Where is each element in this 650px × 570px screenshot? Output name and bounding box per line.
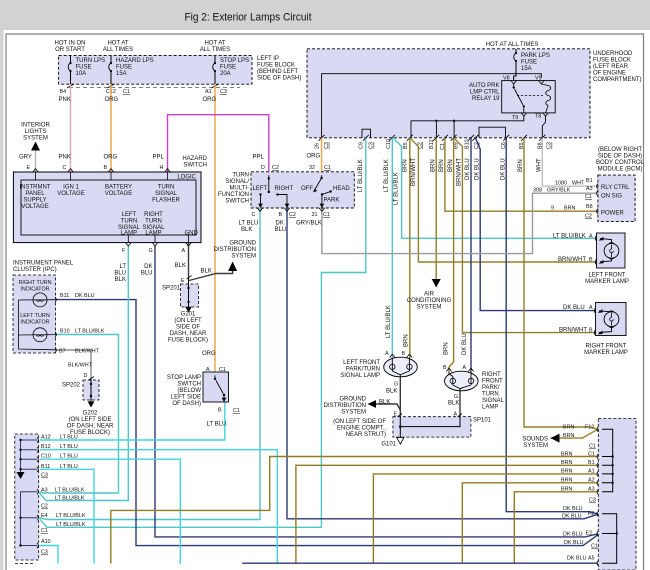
fuse PARK LPS FUSE 15A (514, 49, 550, 72)
wire LT BLU left connector C10 down to bottom (40, 459, 180, 564)
svg-text:BRN/WHT: BRN/WHT (558, 257, 586, 263)
svg-text:GRY/BLK: GRY/BLK (547, 188, 571, 194)
label BRN A2 row (561, 478, 595, 484)
svg-text:SWITCH: SWITCH (225, 199, 249, 205)
svg-text:FUNCTION: FUNCTION (218, 192, 249, 198)
label INTERIOR LIGHTS SYSTEM (21, 123, 50, 142)
wire LT BLU stop lamp switch pin B to left connector A12 (40, 402, 225, 440)
label SOUNDS SYSTEM (522, 436, 548, 449)
wire DK BLU underhood pin C6 to right connector pin F2 (506, 138, 598, 514)
svg-text:BRN: BRN (563, 433, 574, 439)
relay AUTO PRK LMP CTRL RELAY 19 box (469, 81, 555, 113)
svg-text:RIGHT: RIGHT (144, 212, 163, 218)
multifunction switch headlamp selector symbol (301, 175, 350, 208)
svg-text:C3: C3 (547, 142, 553, 149)
svg-text:308: 308 (533, 188, 542, 194)
svg-text:DK: DK (276, 221, 284, 227)
wire LT BLU left connector B12 down to bottom (40, 450, 277, 563)
svg-text:LT BLU/BLK: LT BLU/BLK (553, 233, 586, 239)
relay pin T9 (512, 113, 527, 121)
svg-text:H: H (160, 165, 164, 171)
internal n-loop for connector C2/C6 (479, 127, 506, 138)
svg-text:GND: GND (185, 231, 199, 237)
svg-text:DISTRIBUTION: DISTRIBUTION (324, 403, 366, 409)
svg-text:LEFT IP: LEFT IP (257, 56, 279, 62)
wire BLK/WHT IPC pin B7 to splice SP202 (57, 350, 92, 379)
relay pin V9 (535, 76, 544, 85)
label 1080 WHT B1 (555, 178, 593, 187)
svg-text:C2: C2 (41, 504, 48, 510)
svg-text:LEFT FRONT: LEFT FRONT (343, 360, 380, 366)
label (BELOW RIGHT SIDE OF DASH) BODY CONTROL MODULE (BCM) (596, 147, 645, 173)
svg-text:TURN LPS: TURN LPS (76, 58, 106, 64)
svg-text:C10: C10 (386, 139, 392, 149)
svg-text:LAMP: LAMP (121, 231, 137, 237)
wire BRN bottom feed to right connector pin B1 (296, 465, 598, 563)
label A3 LT BLU/BLK (41, 488, 85, 494)
wire: internal bus from T9 across with stubs down to pins B5, B12, B9 (411, 116, 524, 138)
multifunction switch pin C (252, 208, 263, 218)
multifunction switch turn selector symbol (253, 175, 294, 208)
wire GRY/BLK multifunction switch pin 31 to BCM pin A3 (322, 193, 598, 253)
label TURN SIGNAL FLASHER (152, 185, 180, 204)
label LEFT TURN SIGNAL LAMP (118, 212, 141, 237)
left park/turn pin G and BLK label (386, 382, 398, 395)
svg-text:BLK: BLK (448, 401, 459, 407)
svg-text:B10: B10 (60, 329, 70, 335)
svg-text:LT BLU: LT BLU (60, 435, 78, 441)
svg-text:CLUSTER (IPC): CLUSTER (IPC) (13, 267, 57, 273)
svg-text:C1: C1 (233, 408, 240, 414)
svg-text:DK BLU: DK BLU (567, 555, 587, 561)
wire LT BLU/BLK underhood pin C10 to left front park/turn lamp pin A (391, 138, 393, 358)
svg-text:C3: C3 (220, 89, 227, 95)
svg-text:ENGINE COMPT.,: ENGINE COMPT., (337, 426, 386, 432)
svg-text:BRN/WHT: BRN/WHT (559, 327, 587, 333)
logic inner pin stubs top (36, 172, 189, 243)
svg-text:C1: C1 (589, 444, 596, 450)
svg-text:LEFT SIDE: LEFT SIDE (171, 395, 201, 401)
svg-text:C: C (63, 165, 67, 171)
svg-text:E: E (27, 165, 31, 171)
svg-text:BLU: BLU (141, 271, 153, 277)
svg-text:A2: A2 (588, 478, 595, 484)
svg-text:AIR: AIR (424, 292, 435, 298)
label G202 (ON LEFT SIDE OF DASH, NEAR FUSE BLOCK) (67, 411, 114, 437)
svg-text:V8: V8 (503, 76, 510, 82)
wire DK BLU logic pin G to right connector pin E2 (155, 246, 598, 537)
svg-text:FUSE BLOCK: FUSE BLOCK (593, 58, 631, 64)
svg-text:(BEHIND LEFT: (BEHIND LEFT (257, 69, 298, 75)
svg-text:LEFT FRONT: LEFT FRONT (589, 273, 626, 279)
svg-text:B: B (104, 165, 108, 171)
label C10 LT BLU (41, 454, 78, 460)
wire BRN underhood pin C1 to BCM pin B8 (445, 138, 598, 211)
wire LT BLU left connector B11 down to bottom (40, 469, 94, 563)
splice SP201 box (162, 276, 199, 308)
wire BRN bottom feed to right connector pin A2 (462, 483, 598, 564)
svg-text:TURN: TURN (158, 185, 175, 191)
wire ORG stop fuse to stop lamp switch pin A (214, 84, 216, 372)
svg-text:B1: B1 (586, 178, 593, 184)
wire DK BLU multifunction switch pin B to right connector pin F2 (287, 208, 598, 519)
svg-text:SYSTEM: SYSTEM (341, 410, 366, 416)
multifunction switch pin B / C2 (279, 208, 296, 218)
multifunction switch pin 31 / C1 (312, 208, 330, 218)
svg-text:WHT: WHT (572, 181, 585, 187)
svg-text:INSTRUMENT PANEL: INSTRUMENT PANEL (13, 261, 74, 267)
svg-text:LT BLU: LT BLU (60, 444, 78, 450)
svg-text:OF DASH): OF DASH) (172, 401, 201, 407)
pin label C9/C3 (359, 142, 375, 149)
svg-text:FUSE: FUSE (116, 65, 132, 71)
wire BRN bottom feed to right connector pin C1 (111, 457, 598, 564)
svg-text:A: A (463, 365, 467, 371)
label RIGHT TURN SIGNAL LAMP (142, 212, 165, 237)
svg-text:DK BLU: DK BLU (462, 333, 468, 355)
svg-text:OF ENGINE: OF ENGINE (593, 71, 626, 77)
fuse HAZARD LPS FUSE 15A (109, 56, 154, 84)
svg-text:FUSE: FUSE (220, 65, 236, 71)
pin B logic box (104, 165, 114, 172)
stop lamp switch pin A / C1 (206, 367, 226, 375)
svg-text:E2: E2 (586, 531, 593, 537)
BCM box (598, 175, 635, 222)
svg-text:TURN: TURN (232, 173, 249, 179)
label LT BLU BLK (pin F wire) (114, 264, 126, 283)
svg-text:LT BLU/BLK: LT BLU/BLK (394, 172, 400, 205)
wire DK BLU row to right connector pin A5 (242, 562, 598, 564)
arrow left to sounds system (551, 434, 560, 443)
svg-text:PNK: PNK (59, 155, 71, 161)
label DK BLU (switch pin B wire) (275, 221, 287, 234)
label BRN B1 row (561, 460, 595, 466)
logic module outer box (13, 172, 201, 243)
svg-text:B8: B8 (586, 204, 593, 210)
svg-text:LT: LT (119, 264, 126, 270)
wire GRY interior lights to logic pin E (35, 151, 37, 173)
svg-text:GRY/BLK: GRY/BLK (296, 221, 322, 227)
svg-text:AUTO PRK: AUTO PRK (469, 83, 500, 89)
wire PNK fuse B4 to logic pin C (70, 84, 72, 172)
label E4 LT BLU/BLK (41, 513, 86, 519)
svg-text:A1: A1 (205, 89, 212, 95)
svg-text:LT BLU: LT BLU (207, 422, 227, 428)
label B7 BLK/WHT (59, 349, 100, 355)
svg-text:NEAR STRUT): NEAR STRUT) (346, 432, 386, 438)
left IP fuse block box (59, 55, 252, 84)
svg-text:A: A (589, 233, 593, 239)
svg-text:A: A (182, 248, 186, 254)
left connector pin A3 (37, 489, 38, 494)
label GROUND DISTRIBUTION SYSTEM (center) (214, 241, 257, 260)
svg-text:RLY CTRL: RLY CTRL (601, 185, 630, 191)
svg-text:SIGNAL LAMP: SIGNAL LAMP (340, 373, 380, 379)
svg-text:LEFT: LEFT (122, 212, 137, 218)
svg-text:HEAD: HEAD (333, 186, 350, 192)
svg-text:(LEFT REAR: (LEFT REAR (593, 64, 629, 70)
label IGN 1 VOLTAGE (57, 185, 84, 198)
svg-text:D: D (84, 373, 88, 379)
right park/turn pin G and BLK label (448, 394, 459, 407)
left connector internal bus (lower) (19, 492, 37, 547)
svg-text:HOT AT: HOT AT (107, 41, 128, 47)
svg-text:B12: B12 (41, 444, 51, 450)
svg-text:SIGNAL/: SIGNAL/ (225, 179, 249, 185)
wire BRN underhood pin B5 to right connector pin F12 (524, 138, 598, 429)
label INSTRMNT PANEL SUPPLY VOLTAGE (20, 185, 51, 211)
svg-text:RIGHT FRONT: RIGHT FRONT (586, 344, 627, 350)
label LEFT TURN INDICATOR (20, 313, 50, 326)
pin label B8/C3 (537, 142, 552, 149)
label LT BLU/BLK A (left front marker feed) (553, 233, 593, 239)
left connector internal bus (upper) (17, 439, 38, 479)
BCM pin B8 (597, 209, 598, 214)
svg-text:SIDE OF DASH): SIDE OF DASH) (257, 76, 301, 82)
svg-text:F12: F12 (585, 425, 594, 431)
svg-text:LT BLU/BLK: LT BLU/BLK (56, 522, 86, 528)
svg-text:A: A (589, 305, 593, 311)
wire PPL logic pin H to multifunction switch pin D (168, 115, 269, 172)
svg-text:STOP LAMP: STOP LAMP (167, 375, 201, 381)
wire LT BLU/BLK multifunction switch pin C to left connector E4 (40, 208, 261, 520)
label LT BLU BLK (switch pin C wire) (239, 221, 259, 234)
svg-text:G: G (149, 248, 153, 254)
svg-text:VOLTAGE: VOLTAGE (21, 204, 48, 210)
pin B4 (turn lps fuse output) (60, 84, 75, 95)
left front marker lamp (595, 233, 625, 268)
left connector pin A12 (37, 437, 38, 442)
svg-text:B: B (218, 408, 222, 414)
svg-text:DK BLU: DK BLU (75, 293, 95, 299)
svg-text:1080: 1080 (555, 181, 567, 187)
wire LT BLU/BLK IPC pin B10 to left connector A3 (40, 335, 119, 494)
pin E logic box (27, 165, 39, 172)
svg-text:BLK/WHT: BLK/WHT (75, 349, 100, 355)
svg-text:C1: C1 (123, 89, 130, 95)
label BRN A1 row (561, 469, 595, 475)
svg-text:(ON LEFT SIDE OF: (ON LEFT SIDE OF (333, 419, 386, 425)
svg-text:LT BLU: LT BLU (60, 464, 78, 470)
relay switch contact blade (513, 84, 526, 113)
svg-text:15A: 15A (116, 71, 127, 77)
relay pin T8 (535, 113, 548, 120)
label BRN/WHT B (left front marker) (558, 257, 593, 263)
svg-text:DK BLU: DK BLU (563, 305, 585, 311)
svg-text:COMPARTMENT): COMPARTMENT) (593, 77, 641, 83)
svg-text:DK: DK (144, 264, 152, 270)
rotated wire color labels below underhood block (358, 158, 543, 205)
left front park/turn signal lamp (384, 351, 418, 377)
svg-text:INDICATOR: INDICATOR (20, 320, 49, 326)
svg-text:SIGNAL: SIGNAL (155, 191, 178, 197)
svg-text:SUPPLY: SUPPLY (23, 198, 46, 204)
label B10 LT BLU/BLK (60, 329, 105, 335)
svg-text:B: B (589, 257, 593, 263)
svg-text:LT BLU/BLK: LT BLU/BLK (75, 329, 105, 335)
svg-text:FRONT: FRONT (482, 379, 503, 385)
svg-text:32: 32 (309, 165, 315, 171)
relay pin V8 (503, 76, 516, 85)
svg-text:G201: G201 (181, 312, 196, 318)
label TURN SIGNAL/ MULTI-FUNCTION SWITCH (218, 173, 249, 205)
svg-text:ORG: ORG (307, 154, 321, 160)
svg-text:C1: C1 (41, 528, 48, 534)
ground G101 arrow (397, 437, 404, 444)
label (ON LEFT SIDE OF ENGINE COMPT., NEAR STRUT) (333, 419, 386, 438)
label: LEFT IP FUSE BLOCK (BEHIND LEFT SIDE OF DASH) (257, 56, 301, 82)
svg-text:C2: C2 (585, 214, 592, 220)
svg-text:HOT AT ALL TIMES: HOT AT ALL TIMES (486, 42, 539, 48)
svg-text:LT BLU/BLK: LT BLU/BLK (384, 159, 390, 192)
svg-text:PARK LPS: PARK LPS (521, 53, 550, 59)
svg-text:SYSTEM: SYSTEM (523, 443, 548, 449)
fuse TURN LPS FUSE 10A (68, 56, 105, 84)
underhood block pin slashes along bottom edge (319, 135, 546, 141)
svg-text:BRN: BRN (444, 342, 450, 355)
right bottom connector box (598, 419, 636, 570)
svg-text:(BELOW: (BELOW (177, 388, 201, 394)
pin A logic box bottom (182, 243, 192, 254)
svg-text:HAZARD: HAZARD (182, 156, 207, 162)
wire LT BLU left connector A10 down to bottom (40, 546, 58, 564)
svg-text:LMP CTRL: LMP CTRL (470, 90, 500, 96)
svg-text:TURN: TURN (121, 219, 138, 225)
IPC pin B10 (55, 332, 56, 337)
wire DK BLU underhood pin B10 to right front park/turn lamp pin A (470, 138, 472, 372)
left bottom connector box (15, 434, 39, 560)
svg-text:20A: 20A (220, 71, 231, 77)
svg-text:LAMP: LAMP (145, 231, 161, 237)
svg-text:B11: B11 (60, 293, 69, 299)
svg-text:LAMP: LAMP (482, 405, 498, 411)
svg-text:OR START: OR START (55, 47, 85, 53)
svg-text:PARK: PARK (324, 198, 340, 204)
svg-text:BLU: BLU (275, 227, 287, 233)
svg-text:MARKER LAMP: MARKER LAMP (584, 350, 628, 356)
svg-text:ORG: ORG (104, 155, 118, 161)
svg-text:FUSE: FUSE (521, 60, 537, 66)
svg-text:VOLTAGE: VOLTAGE (105, 191, 132, 197)
arrow left to ground distribution system (lower) (368, 400, 377, 408)
svg-text:SP202: SP202 (62, 383, 81, 389)
wire ORG hazard fuse to logic pin B (110, 84, 112, 172)
right front marker lamp (594, 303, 626, 336)
left gray margin strip (0, 30, 4, 570)
label 9 BRN B8 (551, 204, 593, 212)
svg-text:C3: C3 (41, 550, 48, 556)
svg-text:(ON LEFT: (ON LEFT (174, 318, 202, 324)
splice SP101 box (393, 412, 492, 438)
ground G201 arrow (185, 307, 192, 313)
svg-text:LT BLU: LT BLU (239, 221, 259, 227)
pin C logic box (63, 165, 74, 172)
svg-text:STOP LPS: STOP LPS (220, 58, 249, 64)
left connector pin C10 (37, 457, 38, 462)
left connector pin E4 (37, 515, 38, 520)
svg-text:BLK/WHT: BLK/WHT (68, 363, 93, 369)
wire BLK logic pin A to splice SP201 (188, 243, 190, 277)
label B11 DK BLU (60, 293, 95, 299)
svg-text:G202: G202 (83, 411, 98, 417)
label DK BLU A (right front marker feed) (563, 305, 593, 311)
label G201 (ON LEFT SIDE OF DASH, NEAR FUSE BLOCK) (168, 312, 208, 344)
svg-text:ORG: ORG (203, 97, 217, 103)
svg-text:SYSTEM: SYSTEM (417, 305, 442, 311)
label AIR CONDITIONING SYSTEM (407, 292, 452, 311)
svg-text:BLK: BLK (386, 389, 397, 395)
svg-text:POWER: POWER (601, 211, 624, 217)
wire BRN underhood pin B9 to right front park/turn lamp pin B (449, 138, 454, 372)
svg-text:BLK: BLK (241, 227, 252, 233)
label LEFT FRONT MARKER LAMP (585, 273, 629, 286)
svg-text:DK BLU: DK BLU (563, 531, 583, 537)
ground G202 arrow (88, 400, 95, 408)
svg-text:B: B (589, 327, 593, 333)
pin label 26/C3 (ORG feed) (315, 142, 330, 149)
arrow down to air conditioning system (432, 279, 441, 288)
svg-text:C1: C1 (588, 451, 595, 457)
wire BLK splice to ground distribution system arrow (189, 271, 233, 281)
svg-text:SYSTEM: SYSTEM (231, 254, 256, 260)
label BATTERY VOLTAGE (105, 185, 132, 198)
IPC internal ground bus to pin B7 (18, 300, 55, 350)
svg-text:BATTERY: BATTERY (105, 185, 132, 191)
svg-text:C1: C1 (585, 194, 592, 200)
svg-text:ALL TIMES: ALL TIMES (103, 47, 133, 53)
svg-text:LT BLU/BLK: LT BLU/BLK (386, 305, 392, 338)
IPC pin B11 (55, 297, 56, 302)
label LEFT FRONT PARK/TURN SIGNAL LAMP (340, 360, 380, 379)
multifunction switch pin D / C2 (261, 165, 279, 175)
left connector pin A10 (37, 543, 38, 548)
svg-text:V9: V9 (535, 76, 542, 82)
svg-text:BRN: BRN (561, 487, 572, 493)
svg-text:BRN: BRN (564, 206, 575, 212)
svg-text:FLASHER: FLASHER (152, 198, 180, 204)
pin A1 / C3 (stop lps fuse output) (205, 84, 227, 95)
wire DK BLU underhood pin C2 to right front marker lamp pin A (475, 138, 595, 311)
svg-text:RIGHT: RIGHT (275, 186, 294, 192)
label BRN C1 row (561, 451, 595, 457)
label STOP LAMP SWITCH (BELOW LEFT SIDE OF DASH) (167, 375, 201, 407)
pin F logic box bottom (122, 243, 131, 254)
svg-text:BLK: BLK (201, 269, 212, 275)
svg-text:C10: C10 (41, 454, 51, 460)
wire LT BLU/BLK underhood pin C9 to left connector E4 (lower row) (40, 138, 366, 528)
wire ORG underhood pin 26/C3 to multifunction switch pin 32 (321, 138, 323, 172)
svg-text:BLK: BLK (379, 400, 390, 406)
label DK BLU A5 (567, 555, 595, 561)
svg-text:BRN: BRN (561, 460, 572, 466)
label B12 LT BLU (41, 444, 78, 450)
pin G logic box bottom (149, 243, 158, 254)
svg-text:DK BLU: DK BLU (564, 540, 584, 546)
svg-text:BODY CONTROL: BODY CONTROL (596, 160, 645, 166)
svg-text:LT BLU/BLK: LT BLU/BLK (55, 496, 85, 502)
svg-text:Fig 2: Exterior Lamps Circuit: Fig 2: Exterior Lamps Circuit (185, 12, 313, 24)
svg-text:RIGHT: RIGHT (482, 372, 501, 378)
top gray title band (0, 0, 650, 30)
instrument panel cluster box (13, 275, 56, 353)
svg-text:BLK: BLK (175, 263, 186, 269)
label INSTRUMENT PANEL CLUSTER (IPC) (13, 261, 74, 274)
svg-text:SIGNAL: SIGNAL (482, 398, 505, 404)
svg-text:CONDITIONING: CONDITIONING (407, 298, 452, 304)
svg-text:PANEL: PANEL (25, 191, 45, 197)
svg-text:LIGHTS: LIGHTS (25, 129, 47, 135)
wire BRN underhood pin B5 to left front park/turn lamp pin B (409, 138, 411, 358)
